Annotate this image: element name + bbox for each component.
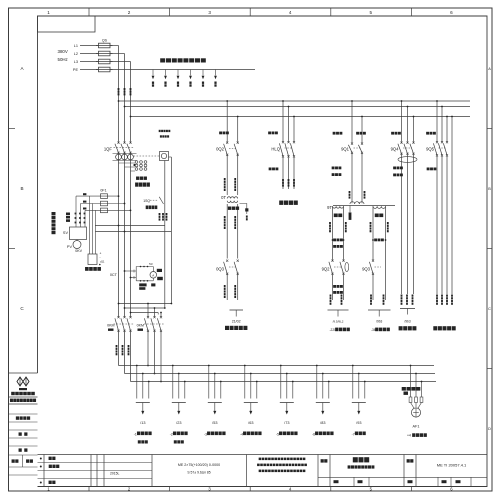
- fuse QS L3 pole: [96, 59, 113, 64]
- title block revision table: [38, 455, 488, 487]
- motor operator of 1QF: [134, 152, 169, 161]
- right margin zone ticks and letters: [487, 67, 492, 431]
- svg-text:9Q4: 9Q4: [391, 147, 400, 152]
- voltmeter selector switch SV: [63, 227, 87, 240]
- selector chinese side note: [52, 212, 56, 234]
- breaker 9Q2: [322, 239, 349, 305]
- svg-text:HLQ: HLQ: [271, 147, 280, 152]
- 0KV chinese label: [85, 267, 101, 271]
- 9T secondary wires: [329, 206, 389, 300]
- wire 0KM2 pole risers: [147, 303, 162, 318]
- svg-text:/9.5/9L2: /9.5/9L2: [333, 320, 344, 324]
- feeder outgoing circuit -5 arrow: [280, 365, 294, 425]
- feeder outgoing circuit -2 name label: [170, 432, 188, 444]
- feeder outgoing circuit -5 name label: [276, 432, 298, 437]
- wire control tap upper: [95, 225, 165, 227]
- HLQ cable labels: [268, 132, 295, 187]
- svg-text:/13: /13: [140, 421, 145, 425]
- svg-text:d11: d11: [100, 260, 105, 264]
- svg-text:53: 53: [149, 262, 153, 266]
- wire bypass loop line 3: [130, 312, 159, 314]
- svg-text:9Q5: 9Q5: [426, 147, 435, 152]
- title block design column: [321, 455, 330, 487]
- 0Q2 wire labels: [219, 132, 236, 192]
- wire CT secondary taps: [124, 270, 137, 280]
- bus L3 phase: [130, 116, 470, 118]
- title block number column: [407, 455, 416, 487]
- wire tap small labels: [83, 193, 86, 209]
- svg-text:6: 6: [450, 10, 453, 15]
- title block drawing title: [348, 455, 404, 487]
- svg-text:ME 2×75(+100/20) 0-0000: ME 2×75(+100/20) 0-0000: [178, 463, 220, 467]
- contactor output wire labels: [116, 345, 130, 355]
- transformer 9T: [327, 202, 395, 220]
- svg-text:/53: /53: [212, 421, 217, 425]
- svg-text:B: B: [488, 187, 491, 191]
- incoming supply labels 380V 50Hz: [58, 49, 68, 62]
- 9Q5 cable labels: [426, 132, 453, 305]
- title column rows: [9, 414, 38, 475]
- svg-text:21/02: 21/02: [232, 320, 241, 324]
- wire control tap lower: [95, 231, 171, 233]
- socket AF1 symbol: [411, 403, 422, 418]
- top margin zone ticks and numbers: [47, 8, 453, 16]
- feeder outgoing circuit -7 name label: [352, 432, 366, 437]
- breaker 9Q4 with core balance CT: [391, 100, 417, 294]
- svg-text:0KM: 0KM: [107, 324, 114, 328]
- wire auxiliary drop a: [164, 161, 166, 309]
- svg-text:-5: -5: [276, 432, 279, 436]
- breaker 0Q3: [216, 260, 239, 300]
- feeder outgoing circuit -4 name label: [240, 432, 262, 437]
- breaker 0F1: [100, 189, 107, 213]
- feeder outgoing circuit -6 arrow: [316, 365, 330, 425]
- svg-text:0KM: 0KM: [137, 324, 144, 328]
- feeder outgoing circuit -1 arrow: [136, 365, 150, 425]
- svg-text:1SQ: 1SQ: [143, 199, 150, 203]
- bottom margin zone ticks and numbers: [47, 486, 453, 491]
- ammeter PA: [150, 269, 163, 280]
- feeder outgoing circuit -7 arrow: [352, 365, 366, 425]
- voltmeter selector terminal block: [66, 213, 85, 224]
- wire bypass loop line 2: [124, 307, 166, 309]
- motor operator label: [159, 130, 171, 138]
- breaker 0Q2: [216, 100, 239, 195]
- svg-text:9Q3: 9Q3: [362, 267, 371, 272]
- isolator fuse QS label: [102, 39, 108, 43]
- wire main feeder L31: [130, 62, 132, 382]
- ammeter wiring labels: [139, 283, 155, 289]
- current metering label 0CT: [110, 273, 118, 277]
- wire main feeder L21: [124, 54, 126, 374]
- svg-text:-2: -2: [170, 432, 173, 436]
- svg-text:+4: +4: [407, 434, 411, 438]
- socket circuit AF1 fuses: [402, 365, 423, 403]
- wire auxiliary drop b: [169, 157, 172, 304]
- bus L1 phase: [118, 100, 470, 102]
- svg-text:L2: L2: [74, 52, 78, 56]
- feeder outgoing circuit -4 arrow: [244, 365, 258, 425]
- breaker 9Q5: [426, 100, 453, 294]
- feeder outgoing circuit -2 arrow: [172, 365, 186, 425]
- feeder wire labels: [118, 88, 132, 95]
- svg-text:S 57± 9.6Δn 85: S 57± 9.6Δn 85: [187, 471, 210, 475]
- svg-text:5: 5: [370, 10, 373, 15]
- breaker 9Q1: [341, 100, 363, 203]
- 0Q3 output wire labels: [224, 285, 236, 298]
- svg-text:SV: SV: [63, 231, 69, 235]
- svg-text:-4: -4: [240, 432, 243, 436]
- svg-text:4: 4: [289, 10, 292, 15]
- feeder outgoing circuit -1 name label: [134, 432, 152, 444]
- svg-text:-1: -1: [134, 432, 137, 436]
- title column department row: [9, 397, 38, 404]
- svg-text:B: B: [20, 186, 23, 191]
- svg-text:A: A: [488, 67, 491, 71]
- wire main feeder L11: [118, 46, 120, 366]
- position switch 1SQ: [143, 197, 167, 221]
- svg-text:PE: PE: [73, 68, 79, 72]
- load terminal fire linkage: [399, 309, 417, 331]
- contactor 0KM1: [107, 316, 134, 332]
- 9Q1 cable labels: [332, 132, 366, 199]
- voltage transformer 0KV: [75, 249, 105, 265]
- fuse QS L2 pole: [96, 51, 113, 56]
- svg-text:D: D: [488, 427, 491, 431]
- socket AF1 labels: [407, 425, 427, 438]
- svg-text:ME TI 20057.4.1: ME TI 20057.4.1: [437, 463, 467, 468]
- svg-text:/83: /83: [320, 421, 325, 425]
- wire L1 from fuse to feeder drop: [110, 45, 119, 47]
- PE bus chinese note: [160, 58, 206, 62]
- HLQ branch name: [279, 201, 298, 205]
- svg-text:1QF: 1QF: [104, 147, 113, 152]
- title block bottom sub row: [318, 477, 487, 486]
- bottom bus phase A: [119, 365, 435, 367]
- contactor 0KM2: [137, 316, 164, 332]
- PE busbar: [110, 69, 255, 71]
- bus L2 phase: [124, 106, 470, 108]
- svg-text:PV: PV: [67, 245, 73, 249]
- feeder outgoing circuit -3 name label: [204, 432, 226, 437]
- left margin zone ticks and letters: [9, 66, 25, 311]
- svg-text:1: 1: [47, 10, 50, 15]
- ammeter selector loop: [136, 262, 153, 282]
- wire drops to voltmeter switch: [76, 196, 85, 227]
- svg-text:QS: QS: [102, 39, 108, 43]
- svg-text:50Hz: 50Hz: [58, 57, 68, 62]
- svg-text:-7: -7: [352, 432, 355, 436]
- wire drops to voltage transformer 0KV: [90, 196, 96, 254]
- svg-text:L3: L3: [74, 60, 78, 64]
- svg-text:/9b3: /9b3: [404, 320, 410, 324]
- svg-text:/63: /63: [248, 421, 253, 425]
- wire voltage tap L1: [76, 195, 119, 197]
- svg-text:9T: 9T: [327, 205, 332, 210]
- svg-text:0F1: 0F1: [100, 189, 106, 193]
- svg-text:/9b3: /9b3: [376, 320, 382, 324]
- breaker 1QF drawout chassis: [113, 154, 137, 161]
- wire voltage tap L2: [81, 203, 126, 205]
- feeder outgoing circuit -6 name label: [312, 432, 334, 437]
- PE drop arrows with PE labels: [152, 70, 217, 87]
- load terminal -36V aux supply: [368, 310, 391, 332]
- svg-text:0KV: 0KV: [75, 249, 82, 253]
- title column logo box: [9, 373, 38, 395]
- current transformers 1CT: [119, 161, 147, 171]
- load terminal frequency drive: [225, 310, 247, 330]
- svg-text:380V: 380V: [58, 49, 68, 54]
- incoming wires to isolator QS: [80, 46, 99, 70]
- breaker 9Q3: [362, 239, 384, 305]
- feeder outgoing circuit -3 arrow: [208, 365, 222, 425]
- title block drawing number: [437, 463, 467, 468]
- load terminal -220V aux supply: [328, 310, 350, 332]
- title block equipment description: [178, 455, 247, 487]
- svg-text:0Q3: 0Q3: [216, 267, 225, 272]
- wire L3 from fuse to feeder drop: [110, 61, 131, 63]
- svg-text:-6: -6: [312, 432, 315, 436]
- svg-text:9Q1: 9Q1: [341, 147, 350, 152]
- svg-text:9Q2: 9Q2: [322, 267, 331, 272]
- wire L2 from fuse to feeder drop: [110, 53, 125, 55]
- svg-text:C: C: [488, 307, 491, 311]
- voltmeter PV: [67, 240, 81, 250]
- svg-text:-3: -3: [204, 432, 207, 436]
- fuse QS PE pole: [96, 67, 113, 72]
- wire bypass loop line 1: [118, 303, 173, 305]
- svg-text:0Q2: 0Q2: [216, 147, 225, 152]
- 9Q4 cable labels: [391, 132, 413, 305]
- svg-text:A: A: [152, 273, 154, 277]
- top-left reference box: [38, 16, 96, 32]
- 0T secondary wire labels: [224, 216, 236, 229]
- circuit breaker 1QF: [104, 142, 135, 154]
- svg-text:AF1: AF1: [413, 425, 420, 429]
- svg-text:0T: 0T: [221, 195, 226, 200]
- wire 0KM2 outputs to buses: [147, 331, 162, 383]
- svg-text:0CT: 0CT: [110, 273, 118, 277]
- wire voltage tap L3: [85, 210, 131, 212]
- bottom bus phase B: [125, 373, 436, 375]
- phase labels L1 L2 L3 PE: [73, 44, 79, 72]
- svg-text:2015L: 2015L: [110, 471, 120, 475]
- title block company names: [257, 455, 318, 487]
- bottom bus phase C: [131, 381, 437, 383]
- svg-text:/73: /73: [284, 421, 289, 425]
- 9Q5 branch name three phase service: [433, 326, 455, 330]
- svg-text:L1: L1: [74, 44, 78, 48]
- fuse QS L1 pole: [96, 43, 113, 48]
- fuse switch HLQ: [271, 100, 295, 189]
- transformer 0T: [221, 195, 248, 259]
- svg-text:/93: /93: [356, 421, 361, 425]
- svg-text:3: 3: [208, 10, 211, 15]
- svg-text:2: 2: [128, 10, 131, 15]
- svg-text:/23: /23: [176, 421, 181, 425]
- CT secondary labels 1A1 1A2 1A3: [135, 177, 150, 187]
